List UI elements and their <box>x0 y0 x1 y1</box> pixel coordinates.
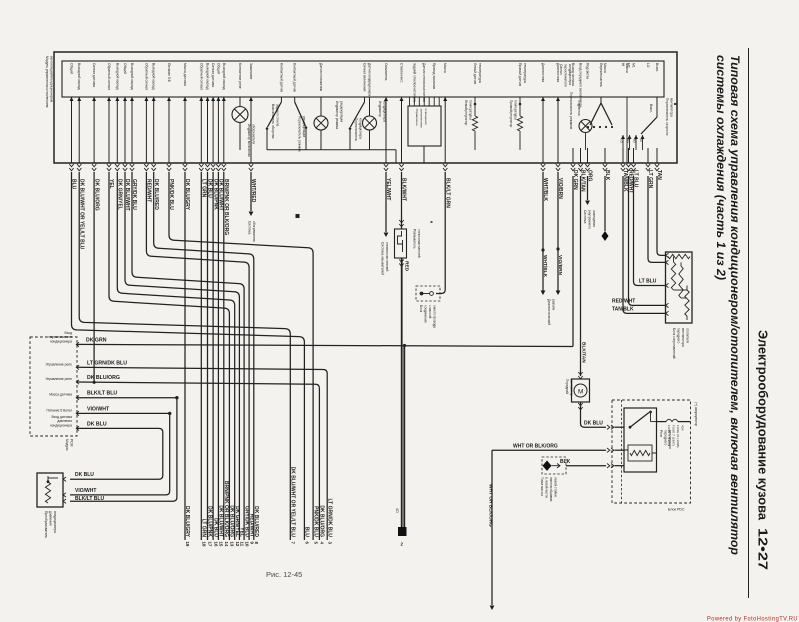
svg-text:Выходной каскад: Выходной каскад <box>222 63 226 90</box>
svg-text:Типовая схема управления конди: Типовая схема управления кондиционером/о… <box>728 55 742 555</box>
svg-text:Стеклоочист.: Стеклоочист. <box>400 63 404 83</box>
module pin wire BLK/TAN <box>580 148 582 163</box>
svg-text:Индикатор: Индикатор <box>378 101 382 117</box>
wire BRN/PNK OR BLK/ORG to pin 14 <box>223 172 225 540</box>
svg-text:RED: RED <box>404 261 410 272</box>
module pin wire DK BLU/ORG <box>93 97 95 163</box>
wire RED/WHT to resistor block <box>629 176 666 305</box>
svg-text:BLK: BLK <box>560 459 571 465</box>
module pin wire BLK/WHT <box>401 97 403 163</box>
wire GRY/DK BLU pin 10 staircase <box>132 172 244 540</box>
connector and label wire YEL <box>107 164 111 171</box>
svg-text:Датчик стеклоочистителя: Датчик стеклоочистителя <box>422 63 426 102</box>
svg-text:Переключатель скорости: Переключатель скорости <box>665 98 669 135</box>
wire DK GRN/YEL pin 12 staircase <box>117 172 234 540</box>
svg-text:FUSE 7 (1997): FUSE 7 (1997) <box>672 425 676 446</box>
wire DK BLU/ORG row to pin 4 <box>77 382 319 540</box>
resistor R4 <box>686 286 688 291</box>
switch S1 rear defogger <box>280 97 282 102</box>
svg-text:Диагностика: Диагностика <box>541 63 545 82</box>
svg-text:в левой части: в левой части <box>545 477 549 498</box>
wire VIO/WHT row <box>77 412 170 414</box>
wire BLK/LT BLU row <box>77 397 177 399</box>
svg-text:DK BLU: DK BLU <box>75 472 94 478</box>
svg-text:14: 14 <box>224 542 229 547</box>
wire BLK ground stub <box>604 176 606 231</box>
module pin wire RED/WHT <box>145 97 147 163</box>
svg-text:13: 13 <box>230 542 235 547</box>
svg-text:Выходной каскад: Выходной каскад <box>77 63 81 90</box>
resistor R3 <box>680 262 682 266</box>
svg-text:Подсветка: Подсветка <box>586 63 590 79</box>
svg-text:Контактный датчик: Контактный датчик <box>279 63 283 93</box>
svg-text:DK BLU/PNK: DK BLU/PNK <box>207 506 213 537</box>
svg-text:рециркуляции: рециркуляции <box>302 116 306 137</box>
wire WHT OR BLK/ORG row <box>492 449 606 451</box>
module pin wire BRN/PNK OR BLK/ORG <box>223 97 225 163</box>
wire LT GRN to pin 18 <box>200 172 202 540</box>
svg-text:5: 5 <box>313 542 318 545</box>
svg-text:температуры: температуры <box>478 63 482 84</box>
svg-text:вентилятора: вентилятора <box>670 98 674 117</box>
svg-text:Выходной каскад: Выходной каскад <box>130 63 134 90</box>
svg-text:Рис. 12-45: Рис. 12-45 <box>266 570 302 579</box>
svg-text:8: 8 <box>254 542 259 545</box>
svg-text:DK BLU/RED: DK BLU/RED <box>253 506 259 537</box>
svg-text:температуры: температуры <box>514 100 518 120</box>
pressure transducer box <box>37 473 63 507</box>
module pin wire DK BLU/WHT <box>217 97 219 163</box>
wire Масса stub <box>626 97 628 163</box>
page rule line <box>748 48 750 598</box>
connector and label wire DK BLU <box>205 164 209 171</box>
svg-text:Датчик положения: Датчик положения <box>319 63 323 91</box>
wire LT GRN to resistor block <box>648 176 666 262</box>
svg-text:Выходной каскад: Выходной каскад <box>206 63 210 90</box>
svg-text:Передний: Передний <box>565 379 569 394</box>
module pin wire DK BLU/GRY <box>184 97 186 163</box>
svg-text:Система омывателей: Система омывателей <box>381 242 385 275</box>
svg-text:TAN/BLK: TAN/BLK <box>612 307 634 313</box>
svg-text:Блок: Блок <box>419 305 423 313</box>
svg-text:освещения: освещения <box>592 210 596 227</box>
svg-text:LT GRN/DK BLU: LT GRN/DK BLU <box>326 498 332 537</box>
indicator lamp L2 (recirc) <box>320 97 322 116</box>
svg-text:BLK/LT BLU: BLK/LT BLU <box>75 496 104 502</box>
module pin wire LT GRN <box>200 97 202 163</box>
svg-text:VIO/WHT: VIO/WHT <box>87 406 110 412</box>
svg-text:Датчик кондиционера: Датчик кондиционера <box>368 63 372 96</box>
svg-text:Выкл.: Выкл. <box>649 104 653 113</box>
speck <box>431 221 433 223</box>
svg-text:Переключатель режимов: Переключатель режимов <box>569 92 573 129</box>
svg-text:17: 17 <box>208 542 213 547</box>
module pin wire DK BLU/WHT OR YEL/LT BLU <box>78 97 80 163</box>
wire BLU to pin 6 <box>72 172 305 540</box>
svg-text:3: 3 <box>327 542 332 545</box>
svg-text:Электрооборудование кузова: Электрооборудование кузова <box>756 330 770 521</box>
svg-text:Блок PDC: Блок PDC <box>668 508 685 512</box>
connector and label wire DK BLU/PNK <box>211 164 215 171</box>
svg-text:PNK/DK BLU: PNK/DK BLU <box>312 506 318 537</box>
fan relay K1 box <box>624 408 657 472</box>
wire WHT/BLK diagnostic <box>542 172 544 291</box>
front fan motor M1 <box>578 372 582 379</box>
svg-text:переключателя: переключателя <box>564 64 568 87</box>
svg-text:Выходной каскад: Выходной каскад <box>152 63 156 90</box>
svg-text:затемнением: затемнением <box>420 109 424 128</box>
svg-text:FUSE 3 (1995): FUSE 3 (1995) <box>667 425 671 446</box>
svg-text:12: 12 <box>235 542 240 547</box>
svg-text:DK BLU/WHT OR YEL/LT BLU: DK BLU/WHT OR YEL/LT BLU <box>290 467 296 538</box>
wire DK BLU/WHT to pin 15 <box>217 172 219 540</box>
svg-text:Реле: Реле <box>659 430 663 438</box>
module pin wire DK BLU/RED <box>153 97 155 163</box>
svg-text:давления: давления <box>49 511 53 526</box>
wire BLK/LT GRN to ground block <box>436 172 445 294</box>
wire VIO/WHT down to transducer <box>70 413 170 495</box>
svg-text:Управление: Управление <box>415 109 419 126</box>
svg-text:разъём: разъём <box>552 299 556 311</box>
module pin wire VIO/BRN <box>557 97 559 163</box>
svg-text:Сигнал включения: Сигнал включения <box>363 63 367 92</box>
svg-text:Управление реле: Управление реле <box>45 377 72 381</box>
svg-text:Модуль: Модуль <box>65 439 69 451</box>
module pin wire BLK <box>604 148 606 163</box>
module pin wire WHT/BLK <box>542 97 544 163</box>
speck <box>296 214 300 218</box>
svg-text:температуры: температуры <box>469 100 473 120</box>
svg-text:Масса: Масса <box>625 63 629 73</box>
wire YEL/WHT to washer system <box>385 172 387 232</box>
svg-text:Индикатор включения: Индикатор включения <box>247 124 251 157</box>
svg-text:FUSE 21 (1998): FUSE 21 (1998) <box>676 425 680 447</box>
svg-text:соединения: соединения <box>424 305 428 323</box>
svg-text:BRN/PNK OR BLK/ORG: BRN/PNK OR BLK/ORG <box>223 481 229 537</box>
svg-text:10: 10 <box>244 542 249 547</box>
svg-text:DK BLU: DK BLU <box>212 518 218 537</box>
svg-text:Диагностический: Диагностический <box>547 299 551 325</box>
svg-text:кондиционера: кондиционера <box>383 101 387 122</box>
connector and label wire BLU <box>69 164 73 171</box>
blower resistor block box <box>666 252 693 323</box>
svg-text:вентилятор: вентилятор <box>570 379 574 396</box>
svg-text:Управление реле: Управление реле <box>45 362 72 366</box>
4D connector block pin 2 <box>398 527 407 536</box>
connector and label wire RED/WHT <box>144 164 148 171</box>
ground point G1 <box>542 457 566 474</box>
svg-text:15: 15 <box>219 542 224 547</box>
svg-text:BLK/LT BLU: BLK/LT BLU <box>87 391 117 397</box>
svg-text:Точка массы: Точка массы <box>540 477 544 496</box>
svg-text:Блок сопротивлений: Блок сопротивлений <box>672 328 676 359</box>
svg-text:16: 16 <box>213 542 218 547</box>
module pin wire DK GRN <box>572 148 574 163</box>
svg-text:вентилятора: вентилятора <box>681 328 685 347</box>
switch S3 A/C <box>364 97 366 102</box>
svg-text:кондиционера: кондиционера <box>568 64 572 85</box>
svg-text:обогревателя: обогревателя <box>252 221 256 242</box>
wire RED/WHT pin 9 staircase <box>146 172 249 540</box>
module pin wire DK BLU <box>207 97 209 163</box>
svg-text:M1: M1 <box>632 63 636 68</box>
wire DK BLU motor to relay <box>581 402 607 427</box>
connector and label wire PNK/DK BLU <box>167 164 171 171</box>
svg-text:LO: LO <box>646 63 650 68</box>
svg-text:WHT OR BLK/ORG: WHT OR BLK/ORG <box>513 443 558 449</box>
svg-text:VIO/WHT: VIO/WHT <box>75 488 96 494</box>
connector and label wire DK BLU/WHT <box>123 164 127 171</box>
module pin wire YEL <box>108 97 110 163</box>
module pin wire RED/WHT <box>628 148 630 163</box>
mode switch S4 <box>600 97 602 103</box>
svg-text:Сигнал датчика: Сигнал датчика <box>92 63 96 87</box>
svg-text:DK BLU/ORG: DK BLU/ORG <box>319 505 325 537</box>
svg-text:кондиционера: кондиционера <box>50 339 72 343</box>
svg-text:VIO/BRN: VIO/BRN <box>557 255 563 276</box>
wire VIO/BRN diagnostic <box>557 172 559 291</box>
ground junction block dashed <box>416 286 440 301</box>
svg-text:Задний стеклоочиститель: Задний стеклоочиститель <box>412 63 416 103</box>
svg-text:Зажигание: Зажигание <box>249 63 253 79</box>
svg-text:левой стойки: левой стойки <box>554 477 558 497</box>
svg-text:Индикатор режима: Индикатор режима <box>335 101 339 129</box>
connector and label wire DK BLU/WHT OR YEL/LT BLU <box>77 164 81 171</box>
connector and label wire DK GRN/YEL <box>115 164 119 171</box>
wire DK BLU/GRY to pin 19 <box>184 172 186 540</box>
svg-text:40A: 40A <box>681 425 685 431</box>
svg-text:Модуль управления отоплением: Модуль управления отоплением <box>45 56 49 108</box>
connector and label wire GRY/DK BLU <box>130 164 134 171</box>
wire DK BLU/WHT OR YEL/LT BLU to pin 7 <box>79 172 290 540</box>
module control box HVAC U1 outer <box>54 52 677 163</box>
wiper circuit breaker CB1 <box>401 172 403 229</box>
svg-text:обогревателя: обогревателя <box>252 124 256 144</box>
PCM module dashed box <box>30 337 77 436</box>
svg-text:кондиционера: кондиционера <box>50 423 72 427</box>
connector and label wire DK BLU/RED <box>152 164 156 171</box>
module pin wire DK BLU/WHT <box>124 97 126 163</box>
wire DK GRN row <box>77 344 573 346</box>
connector and label wire DK BLU/WHT <box>216 164 220 171</box>
module pin wire DK BLU/PNK <box>212 97 214 163</box>
svg-text:синего провода: синего провода <box>433 305 437 328</box>
svg-text:DK BLU/ORG: DK BLU/ORG <box>229 505 235 537</box>
wire DK BLU/PNK to pin 17 <box>212 172 214 540</box>
transducer pins <box>63 477 66 481</box>
wire BLK to relay <box>566 465 606 467</box>
svg-text:с массой: с массой <box>428 305 432 318</box>
module pin wire BLK/LT GRN <box>444 97 446 163</box>
svg-text:Масса датчика: Масса датчика <box>183 63 187 86</box>
svg-text:Правый регулятор: Правый регулятор <box>509 100 513 128</box>
connector and label wire WHT/RED <box>249 164 253 171</box>
wire DK GRN vertical to row <box>572 176 574 347</box>
svg-text:Система: Система <box>248 221 252 234</box>
svg-text:Переключатель: Переключатель <box>599 63 603 87</box>
connector and label wire DK BLU/GRY <box>183 164 187 171</box>
svg-text:Контактный датчик: Контактный датчик <box>293 63 297 93</box>
wire TAN to resistor block <box>657 176 666 255</box>
svg-text:переднего: переднего <box>664 430 668 445</box>
module pin wire PNK/DK BLU <box>168 97 170 163</box>
svg-text:Общий: Общий <box>123 63 127 74</box>
svg-text:Система: Система <box>583 210 587 223</box>
svg-text:Powered by FotoHostingTV.RU: Powered by FotoHostingTV.RU <box>707 616 798 622</box>
svg-text:переднего: переднего <box>677 328 681 343</box>
wire BLK/TAN to front fan motor <box>580 176 582 376</box>
svg-text:Размыкатель: Размыкатель <box>413 229 417 249</box>
svg-text:освещения: освещения <box>424 109 428 125</box>
svg-text:кондиционера: кондиционера <box>53 511 57 533</box>
svg-text:вентиляцией/кондиционером: вентиляцией/кондиционером <box>50 56 54 103</box>
module pin wire YEL/WHT <box>385 97 387 163</box>
svg-text:Обратный сигнал: Обратный сигнал <box>107 63 111 90</box>
svg-text:12•27: 12•27 <box>756 528 770 570</box>
relay coil resistor <box>628 445 652 461</box>
svg-text:отопителя: отопителя <box>686 328 690 343</box>
svg-text:Выключатель обогрева: Выключатель обогрева <box>271 104 275 139</box>
svg-text:2: 2 <box>401 542 404 547</box>
connector and label wire LT GRN <box>199 164 203 171</box>
PDC internal dashed divider <box>621 400 623 503</box>
PDC dashed box <box>612 400 691 503</box>
wire YEL pin 13 staircase <box>109 172 229 540</box>
svg-text:Преобразователь: Преобразователь <box>44 511 48 538</box>
relay switch <box>629 426 632 429</box>
wire DK BLU/WHT pin 11 staircase <box>125 172 239 540</box>
svg-text:Привод заслонки: Привод заслонки <box>432 63 436 89</box>
svg-text:19: 19 <box>185 542 190 547</box>
svg-text:LT GRN: LT GRN <box>201 519 207 538</box>
svg-text:BLK/TAN: BLK/TAN <box>581 342 587 363</box>
module pin wire DK GRN/YEL <box>116 97 118 163</box>
svg-text:стеклоочистителей: стеклоочистителей <box>417 229 421 258</box>
svg-text:(+) аккумулятор: (+) аккумулятор <box>694 402 698 426</box>
svg-text:BLU: BLU <box>304 527 310 538</box>
svg-text:DK GRN: DK GRN <box>86 338 107 344</box>
svg-text:Контактное реле: Контактное реле <box>238 63 242 89</box>
indicator lamp L3 (A/C) <box>369 97 371 116</box>
resistor R2 <box>673 257 675 263</box>
wire BLK/LT BLU down to transducer <box>70 398 177 502</box>
switch S2 recirc <box>294 97 296 102</box>
connector and label wire BRN/PNK OR BLK/ORG <box>222 164 226 171</box>
svg-text:рециркуляции: рециркуляции <box>340 101 344 122</box>
svg-text:Выходной каскад: Выходной каскад <box>115 63 119 90</box>
wire LT GRN/DK BLU row to pin 3 <box>77 367 327 540</box>
svg-text:внутреннего: внутреннего <box>588 210 592 229</box>
svg-text:Переключатель: Переключатель <box>354 118 358 142</box>
svg-text:Сигнал: Сигнал <box>559 64 563 75</box>
svg-text:M: M <box>578 389 583 396</box>
svg-text:Питание 5 Вольт: Питание 5 Вольт <box>46 408 72 412</box>
wire WHT OR BLK/ORG drop <box>491 450 493 605</box>
svg-text:6: 6 <box>305 542 310 545</box>
svg-text:7: 7 <box>291 542 296 545</box>
fuse F1 <box>657 421 667 423</box>
svg-text:Масса датчика: Масса датчика <box>49 393 72 397</box>
svg-text:HI: HI <box>621 63 625 66</box>
module connector inner box <box>62 61 664 97</box>
svg-text:Омыватель: Омыватель <box>384 63 388 81</box>
svg-text:RED/WHT: RED/WHT <box>612 299 635 305</box>
svg-text:Общий: Общий <box>70 63 74 74</box>
junction DK GRN to 4D <box>403 344 406 347</box>
speck <box>674 103 677 105</box>
svg-text:4: 4 <box>320 542 325 545</box>
svg-text:DK BLU: DK BLU <box>87 421 107 427</box>
svg-text:LT GRN/DK BLU: LT GRN/DK BLU <box>87 360 127 366</box>
module pin wire BLU <box>71 97 73 163</box>
svg-text:M2: M2 <box>633 139 637 143</box>
connector and label wire DK BLU/ORG <box>92 164 96 171</box>
wire DK BLU/ORG joins row to pin 4 <box>93 172 95 382</box>
wire RED from breaker to 4D-2 <box>401 258 403 527</box>
indicator lamp L1 (heater) <box>239 97 241 106</box>
svg-text:Общий: Общий <box>216 63 220 74</box>
svg-text:DK BLU: DK BLU <box>584 420 603 426</box>
fan speed switch S5 <box>656 97 658 117</box>
svg-text:Выкл.: Выкл. <box>655 63 659 72</box>
svg-text:Подсветка: Подсветка <box>577 100 581 116</box>
svg-text:HI: HI <box>639 139 643 142</box>
wire DK BLU/RED pin 8 staircase <box>154 172 254 540</box>
svg-text:Левый регулятор: Левый регулятор <box>464 100 468 126</box>
wire ORG to interior lights <box>587 176 589 200</box>
wire DK BLU to pin 16 <box>207 172 209 540</box>
svg-text:заднего стекла: заднего стекла <box>276 104 280 126</box>
svg-text:DK BLU/GRY: DK BLU/GRY <box>184 506 190 538</box>
wire LT BLU to resistor block <box>634 176 666 286</box>
svg-text:DK BLU/WHT: DK BLU/WHT <box>218 505 224 537</box>
svg-text:DK BLU/ORG: DK BLU/ORG <box>87 375 120 381</box>
svg-text:LT BLU: LT BLU <box>639 279 657 285</box>
svg-text:кондиционера: кондиционера <box>359 118 363 139</box>
module pin wire ORG <box>587 148 589 163</box>
dimmer control box U2 <box>408 106 441 146</box>
svg-text:стеклоочистителей: стеклоочистителей <box>385 242 389 272</box>
wire WHT/RED to heater system <box>250 172 252 211</box>
svg-text:Обратный сигнал: Обратный сигнал <box>199 63 203 90</box>
resistor R1 <box>668 254 690 258</box>
svg-text:4D: 4D <box>395 508 399 513</box>
wire PNK/DK BLU to pin 5 <box>169 172 313 540</box>
svg-text:системы охлаждения (часть 1 из: системы охлаждения (часть 1 из 2) <box>714 55 728 280</box>
module pin wire WHT/RED <box>250 97 252 163</box>
svg-text:Масса: Масса <box>443 63 447 73</box>
module pin wire TAN <box>656 148 658 163</box>
svg-text:Сигнал датчика: Сигнал датчика <box>211 63 215 87</box>
svg-text:PCM: PCM <box>70 439 74 447</box>
module pin wire GRY/DK BLU <box>131 97 133 163</box>
svg-text:WHT/BLK: WHT/BLK <box>542 255 548 278</box>
svg-text:температуры: температуры <box>523 63 527 84</box>
svg-text:Питание 5 В: Питание 5 В <box>167 63 171 83</box>
svg-text:Правый датчик: Правый датчик <box>518 63 522 87</box>
transducer resistor <box>47 480 50 483</box>
svg-text:панели обшивки: панели обшивки <box>549 477 553 501</box>
svg-text:Левый датчик: Левый датчик <box>473 63 477 85</box>
module pin wire TAN/BLK <box>622 148 624 163</box>
wire TAN/BLK to resistor block <box>623 176 666 313</box>
svg-text:11: 11 <box>240 542 245 547</box>
svg-text:18: 18 <box>202 542 207 547</box>
illumination lamp L4 <box>585 132 587 150</box>
temp sensor resistor R-left <box>474 103 477 106</box>
svg-text:Переключатель режима: Переключатель режима <box>298 116 302 152</box>
temp sensor resistor R-right <box>519 103 522 106</box>
